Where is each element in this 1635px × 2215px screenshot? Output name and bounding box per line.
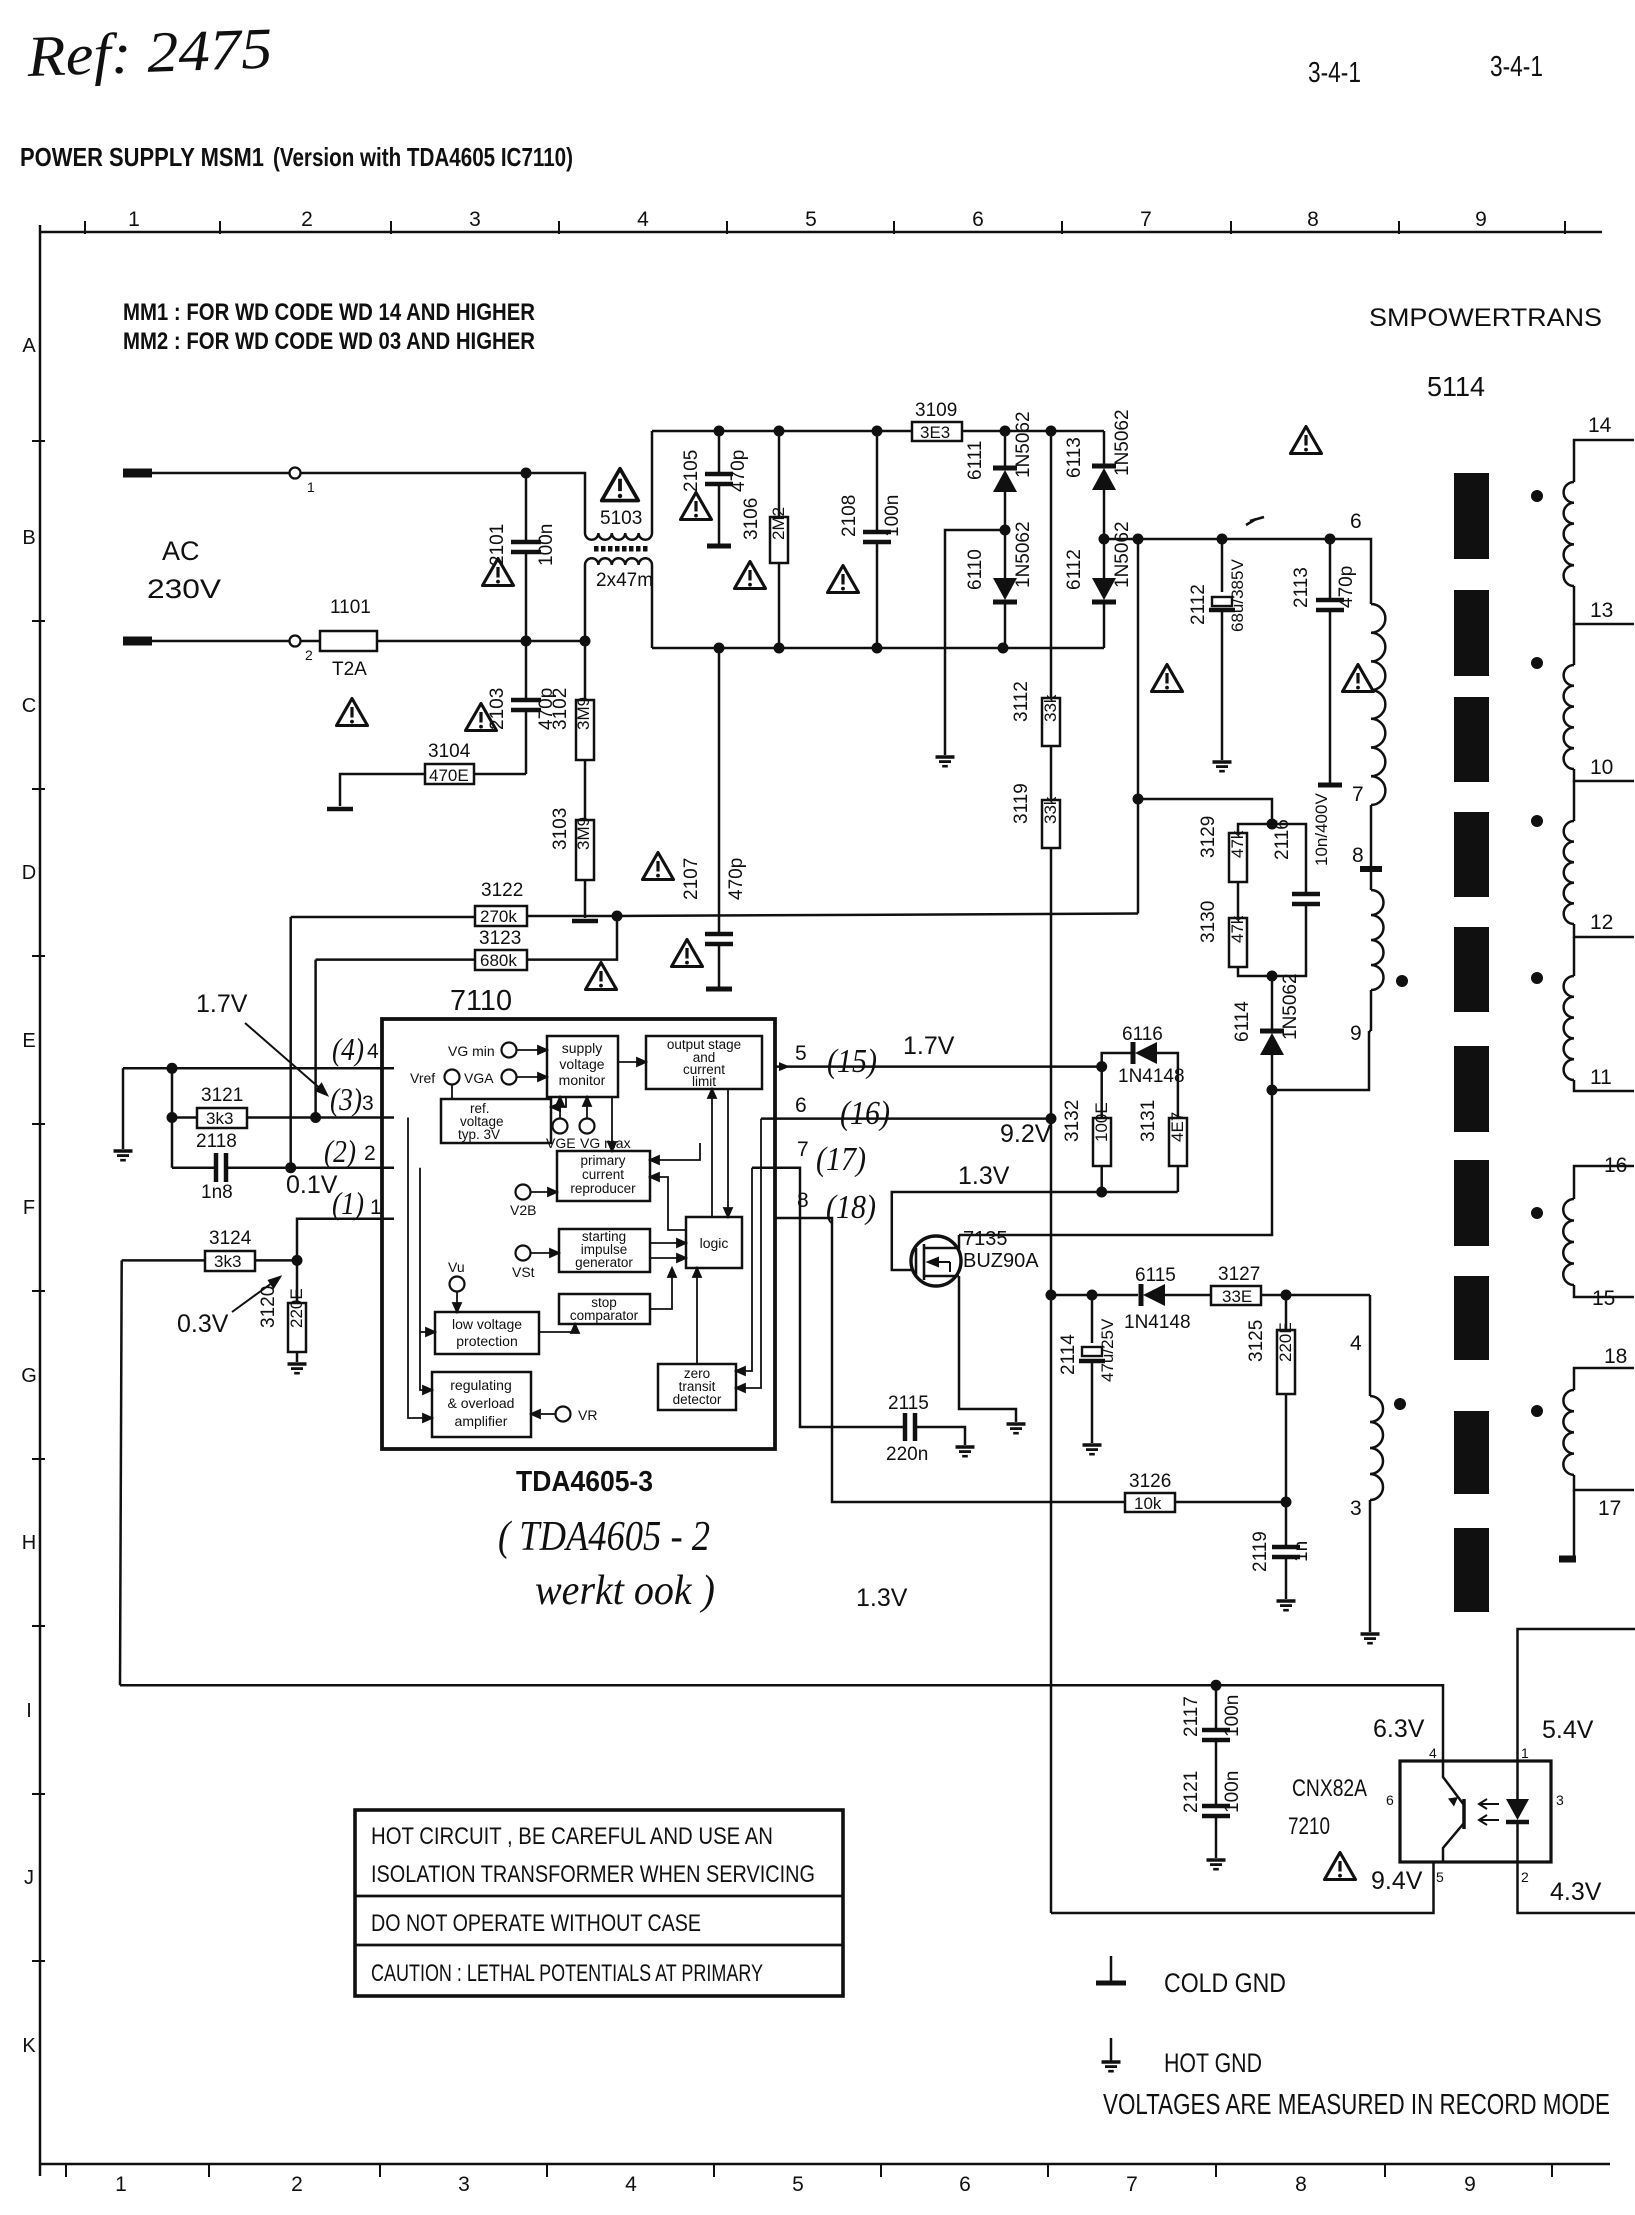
transformer 5114 core bars bbox=[1454, 473, 1489, 1612]
svg-text:9: 9 bbox=[1350, 1022, 1362, 1045]
svg-text:2114: 2114 bbox=[1058, 1334, 1079, 1375]
svg-text:2112: 2112 bbox=[1188, 584, 1209, 625]
IC internal connector monitor down to reproducer bbox=[611, 1097, 613, 1145]
svg-text:470E: 470E bbox=[429, 766, 469, 785]
svg-text:33k: 33k bbox=[1041, 694, 1060, 722]
svg-text:1.7V: 1.7V bbox=[196, 990, 248, 1018]
opto light arrows bbox=[1479, 1799, 1499, 1825]
svg-text:6.3V: 6.3V bbox=[1373, 1715, 1425, 1743]
resistor 3125 220E bbox=[1285, 1295, 1288, 1330]
svg-text:270k: 270k bbox=[480, 907, 517, 926]
svg-text:33E: 33E bbox=[1222, 1287, 1252, 1306]
svg-text:5: 5 bbox=[1436, 1869, 1444, 1885]
svg-text:9: 9 bbox=[1475, 208, 1487, 231]
node pin6 / VCC rail bbox=[1046, 1113, 1057, 1124]
svg-text:(17): (17) bbox=[816, 1141, 866, 1178]
legend hot ground symbol bbox=[1110, 2038, 1113, 2061]
IC internal connector output stage down to logic bbox=[727, 1089, 729, 1211]
node top bus 2108 bbox=[872, 426, 883, 437]
svg-text:3102: 3102 bbox=[550, 688, 571, 730]
svg-text:2103: 2103 bbox=[487, 688, 508, 730]
svg-text:1.3V: 1.3V bbox=[958, 1162, 1010, 1190]
test point Vu bbox=[450, 1277, 465, 1292]
resistor 3132 100E bbox=[1100, 1067, 1103, 1118]
polarity dot 12-11 bbox=[1531, 972, 1543, 984]
svg-text:1N4148: 1N4148 bbox=[1124, 1312, 1191, 1333]
transformer primary wire 7 to 8 bbox=[1370, 805, 1373, 890]
svg-text:1101: 1101 bbox=[330, 597, 371, 618]
svg-text:7: 7 bbox=[797, 1138, 809, 1161]
svg-text:VGE: VGE bbox=[546, 1135, 576, 1151]
svg-text:3131: 3131 bbox=[1138, 1100, 1159, 1142]
svg-text:C: C bbox=[22, 695, 36, 717]
resistor 3122 270k bbox=[291, 916, 475, 919]
wire gate feedback line bbox=[892, 1192, 1178, 1270]
svg-text:I: I bbox=[26, 1700, 32, 1722]
wire bottom bus bbox=[652, 647, 1104, 650]
warning triangle left of 2105 bbox=[681, 493, 712, 520]
resistor 3103 3M9 bbox=[576, 820, 594, 880]
node 3122/3123 join bbox=[612, 911, 623, 922]
svg-text:2: 2 bbox=[1521, 1869, 1529, 1885]
transformer secondary tap 13 bbox=[1574, 586, 1634, 624]
svg-text:5.4V: 5.4V bbox=[1542, 1716, 1594, 1744]
warning triangle below 3106 bbox=[735, 562, 766, 589]
block zero transit detector bbox=[658, 1364, 736, 1410]
border ruler left letters bbox=[21, 335, 37, 2057]
warning triangle below fuse bbox=[337, 699, 368, 726]
svg-text:14: 14 bbox=[1588, 414, 1612, 437]
svg-text:8: 8 bbox=[1307, 208, 1319, 231]
svg-text:13: 13 bbox=[1590, 599, 1613, 622]
resistor 3106 2M2 bbox=[778, 431, 781, 517]
svg-text:10: 10 bbox=[1590, 756, 1613, 779]
resistor 3119 33k bbox=[1050, 746, 1053, 800]
svg-text:3122: 3122 bbox=[481, 880, 523, 901]
svg-text:3k3: 3k3 bbox=[214, 1252, 241, 1271]
node +bus 2112 bbox=[1217, 534, 1228, 545]
wire 3122 drop to pin2 line bbox=[289, 917, 292, 1168]
svg-text:1N5062: 1N5062 bbox=[1112, 409, 1133, 476]
svg-text:2121: 2121 bbox=[1181, 1771, 1202, 1813]
node 3124/3120/pin1 bbox=[292, 1255, 303, 1266]
wire pin5 line (1.7V) bbox=[775, 1065, 1102, 1068]
transformer primary winding 4-3 bbox=[1369, 1295, 1372, 1396]
resistor 3130 47k bbox=[1229, 918, 1247, 967]
svg-text:7: 7 bbox=[1140, 208, 1152, 231]
svg-text:2107: 2107 bbox=[681, 858, 702, 900]
node top bus 2105 bbox=[714, 426, 725, 437]
block supply voltage monitor bbox=[547, 1036, 618, 1097]
legend cold ground symbol bbox=[1110, 1956, 1113, 1982]
IC internal connector low voltage protection to stop comparator bbox=[539, 1330, 575, 1332]
transformer secondary winding 13-10 bbox=[1573, 624, 1576, 665]
svg-text:2: 2 bbox=[364, 1142, 376, 1165]
resistor 3102 3M9 bbox=[576, 700, 594, 760]
svg-text:5: 5 bbox=[795, 1042, 807, 1065]
test point VG max bbox=[580, 1119, 595, 1134]
IC internal connector VGmin to monitor bbox=[408, 1046, 761, 1422]
svg-text:1n8: 1n8 bbox=[201, 1182, 233, 1203]
IC internal connector impulse generator to logic bbox=[650, 1242, 680, 1244]
wire opto pin1 to 5.4V line bbox=[1518, 1629, 1635, 1761]
svg-text:SMPOWERTRANS: SMPOWERTRANS bbox=[1369, 304, 1602, 332]
opto LED bbox=[1516, 1761, 1519, 1799]
svg-text:33k: 33k bbox=[1041, 796, 1060, 824]
svg-text:VSt: VSt bbox=[512, 1264, 535, 1280]
hot ground 2114 bbox=[1083, 1445, 1102, 1454]
diode 6113 1N5062 bbox=[1103, 431, 1106, 468]
resistor 3126 10k bbox=[1125, 1493, 1175, 1512]
hot ground pin4 bbox=[114, 1151, 133, 1160]
svg-text:typ. 3V: typ. 3V bbox=[458, 1127, 500, 1142]
svg-text:HOT GND: HOT GND bbox=[1164, 2048, 1262, 2078]
transformer secondary tap 11 bbox=[1574, 1080, 1634, 1091]
svg-text:4: 4 bbox=[1429, 1745, 1437, 1761]
svg-text:protection: protection bbox=[456, 1333, 517, 1349]
svg-text:4: 4 bbox=[637, 208, 649, 231]
svg-text:voltage: voltage bbox=[559, 1056, 604, 1072]
svg-text:6111: 6111 bbox=[965, 441, 986, 480]
arrow pin5 output bbox=[779, 1062, 790, 1071]
svg-text:Ref: 2475: Ref: 2475 bbox=[25, 15, 273, 89]
capacitor 2103 470p bbox=[525, 641, 528, 698]
transformer secondary winding 12-11 bbox=[1573, 937, 1576, 976]
IC internal connector logic to reproducer (lower) bbox=[656, 1177, 686, 1230]
svg-text:3: 3 bbox=[469, 208, 481, 231]
svg-text:MM2 : FOR WD CODE WD 03 AND HI: MM2 : FOR WD CODE WD 03 AND HIGHER bbox=[123, 328, 535, 355]
block output stage and current limit bbox=[646, 1036, 762, 1089]
wire filter left riser to AC line2 and 3102 bbox=[584, 565, 587, 700]
svg-text:3104: 3104 bbox=[428, 741, 471, 762]
svg-text:3M9: 3M9 bbox=[574, 697, 593, 730]
hot ground 2115 bbox=[956, 1447, 975, 1456]
svg-text:0.1V: 0.1V bbox=[286, 1171, 338, 1199]
svg-text:3109: 3109 bbox=[915, 400, 957, 421]
capacitor 2113 470p bbox=[1329, 539, 1332, 598]
node bottom bus 6110 bbox=[998, 643, 1009, 654]
test point VR bbox=[556, 1407, 571, 1422]
block primary current reproducer bbox=[557, 1151, 650, 1201]
svg-text:7: 7 bbox=[1126, 2173, 1138, 2196]
wire opto pin2 to 4.3V line bbox=[1518, 1862, 1635, 1913]
svg-text:5103: 5103 bbox=[600, 508, 642, 529]
node top bus 6111 bbox=[1000, 426, 1011, 437]
node 3121 left bbox=[167, 1112, 178, 1123]
node bottom bus 2107 bbox=[714, 643, 725, 654]
node VCC rail / 6115 bbox=[1046, 1290, 1057, 1301]
svg-text:Vref: Vref bbox=[410, 1070, 435, 1086]
svg-text:(Version with TDA4605 IC7110): (Version with TDA4605 IC7110) bbox=[273, 142, 573, 172]
svg-text:TDA4605-3: TDA4605-3 bbox=[516, 1466, 653, 1498]
node top bus 3106 bbox=[774, 426, 785, 437]
svg-text:6113: 6113 bbox=[1064, 437, 1085, 478]
svg-text:Vu: Vu bbox=[448, 1259, 465, 1275]
svg-text:VG max: VG max bbox=[580, 1135, 631, 1151]
capacitor 2118 1n8 bbox=[172, 1166, 214, 1169]
svg-text:HOT CIRCUIT , BE CAREFUL AND U: HOT CIRCUIT , BE CAREFUL AND USE AN bbox=[371, 1823, 773, 1850]
node AC2-2101 junction bbox=[521, 636, 532, 647]
op IC U7110 TDA4605 box bbox=[382, 1019, 775, 1449]
node 3121 right / 3123 drop bbox=[310, 1112, 321, 1123]
svg-text:17: 17 bbox=[1598, 1497, 1621, 1520]
wire primary pin 3 to ground bbox=[1369, 1500, 1372, 1632]
block starting impulse generator bbox=[559, 1229, 650, 1272]
svg-text:9.2V: 9.2V bbox=[1000, 1120, 1052, 1148]
hot ground 2112 bbox=[1213, 762, 1232, 771]
svg-text:1: 1 bbox=[370, 1196, 382, 1219]
transformer primary winding 6-7 bbox=[1371, 604, 1385, 805]
svg-text:7210: 7210 bbox=[1288, 1813, 1330, 1840]
svg-text:3M9: 3M9 bbox=[574, 817, 593, 850]
wire VCC rail down bbox=[1050, 848, 1053, 1913]
transformer secondary tap 18 bbox=[1574, 1368, 1634, 1390]
node 2118/3122 drop bbox=[285, 1162, 296, 1173]
svg-text:47u/25V: 47u/25V bbox=[1098, 1318, 1117, 1382]
IC internal connector V2B to reproducer bbox=[531, 1191, 551, 1193]
svg-text:3k3: 3k3 bbox=[206, 1109, 233, 1128]
polarity dot 16-15 bbox=[1531, 1207, 1543, 1219]
resistor 3127 33E bbox=[1211, 1286, 1261, 1305]
transformer secondary winding 14-13 bbox=[1564, 482, 1574, 586]
svg-text:230V: 230V bbox=[147, 574, 221, 604]
svg-text:3130: 3130 bbox=[1198, 901, 1219, 943]
IC internal connector stop comparator to logic bbox=[650, 1276, 672, 1309]
svg-text:3121: 3121 bbox=[201, 1085, 243, 1106]
svg-text:10n/400V: 10n/400V bbox=[1312, 793, 1331, 866]
warning triangle left of 2112 bbox=[1152, 665, 1183, 692]
transformer primary wire 9 bbox=[1370, 990, 1373, 1031]
svg-text:7110: 7110 bbox=[450, 985, 512, 1017]
wire AC line 2 bbox=[152, 640, 585, 643]
svg-text:2118: 2118 bbox=[196, 1131, 237, 1152]
svg-text:470p: 470p bbox=[726, 858, 747, 900]
svg-text:1: 1 bbox=[115, 2173, 127, 2196]
capacitor 2107 470p bbox=[718, 648, 721, 932]
IC internal connector pin6 rail to zero transit bbox=[744, 1119, 761, 1388]
diode 6112 1N5062 bbox=[1103, 539, 1106, 578]
svg-text:regulating: regulating bbox=[450, 1377, 512, 1393]
node bottom bus 2108 bbox=[872, 643, 883, 654]
svg-text:6: 6 bbox=[959, 2173, 971, 2196]
svg-text:2: 2 bbox=[301, 208, 313, 231]
svg-text:reproducer: reproducer bbox=[570, 1181, 636, 1196]
svg-text:8: 8 bbox=[1352, 844, 1364, 867]
transformer secondary winding 16-15 bbox=[1563, 1199, 1574, 1285]
svg-text:2x47m: 2x47m bbox=[596, 570, 653, 591]
wire MOSFET drain to 6114 node bbox=[959, 1090, 1272, 1235]
svg-text:T2A: T2A bbox=[332, 659, 367, 680]
svg-text:(1): (1) bbox=[332, 1185, 364, 1221]
wire 3129 feed line bbox=[1138, 799, 1272, 824]
svg-text:7: 7 bbox=[1352, 783, 1364, 806]
capacitor 2115 220n bbox=[903, 1413, 908, 1441]
svg-text:5: 5 bbox=[792, 2173, 804, 2196]
svg-text:470p: 470p bbox=[728, 450, 749, 492]
warning triangle above 5103 (large) bbox=[602, 469, 639, 501]
resistor 3131 4E7 bbox=[1169, 1118, 1187, 1166]
warning triangle near 2103 bbox=[466, 704, 497, 731]
svg-text:(4): (4) bbox=[332, 1031, 364, 1067]
svg-text:& overload: & overload bbox=[448, 1395, 515, 1411]
svg-text:A: A bbox=[22, 335, 36, 357]
border ruler bottom line bbox=[40, 2163, 1610, 2166]
wire MOSFET source to ground bbox=[959, 1276, 1016, 1422]
svg-text:H: H bbox=[22, 1532, 36, 1554]
node 3126/3125/2119 bbox=[1281, 1497, 1292, 1508]
test point Vref bbox=[445, 1070, 460, 1085]
wire filter right riser top (to top bus) bbox=[651, 431, 654, 533]
IC internal connector VSt to impulse generator bbox=[531, 1252, 553, 1254]
svg-text:1N5062: 1N5062 bbox=[1013, 411, 1034, 478]
transformer secondary tap 17 bbox=[1574, 1475, 1634, 1490]
optocoupler U7210 CNX82A box bbox=[1400, 1761, 1551, 1862]
diode 6111 1N5062 bbox=[1004, 431, 1007, 470]
hot ground bridge bbox=[936, 757, 955, 766]
resistor 3109 3E3 bbox=[912, 422, 962, 441]
scribble mark above +bus bbox=[1246, 517, 1264, 525]
svg-text:6: 6 bbox=[972, 208, 984, 231]
capacitor 2119 1n bbox=[1285, 1502, 1288, 1545]
test point VGA bbox=[502, 1070, 517, 1085]
capacitor 2114 47u/25V electrolytic bbox=[1091, 1295, 1094, 1343]
capacitor 2108 100n bbox=[876, 431, 879, 530]
svg-text:G: G bbox=[21, 1365, 37, 1387]
test point VG min bbox=[502, 1043, 517, 1058]
svg-text:J: J bbox=[24, 1867, 34, 1889]
block logic bbox=[686, 1217, 742, 1268]
svg-text:3124: 3124 bbox=[209, 1228, 252, 1249]
svg-text:2105: 2105 bbox=[681, 450, 702, 492]
svg-text:VR: VR bbox=[578, 1407, 597, 1423]
transformer primary winding 8-9 bbox=[1371, 890, 1384, 990]
hot ground 3120 bbox=[288, 1364, 307, 1373]
svg-text:V2B: V2B bbox=[510, 1202, 536, 1218]
svg-text:3112: 3112 bbox=[1011, 681, 1032, 722]
svg-text:5114: 5114 bbox=[1427, 371, 1485, 402]
svg-text:primary: primary bbox=[580, 1153, 625, 1168]
opto pin numbers bbox=[1386, 1745, 1564, 1885]
svg-text:3127: 3127 bbox=[1218, 1264, 1260, 1285]
svg-text:4.3V: 4.3V bbox=[1550, 1878, 1602, 1906]
IC internal connector VGE up bbox=[559, 1101, 561, 1118]
wire opto feed line (pin1 of IC to opto pin 4) bbox=[120, 1685, 1443, 1761]
svg-text:16: 16 bbox=[1604, 1154, 1627, 1177]
svg-text:10k: 10k bbox=[1134, 1494, 1162, 1513]
node 2117 chain bbox=[1211, 1680, 1222, 1691]
IC internal connector monitor to ref box bbox=[559, 1097, 566, 1107]
hot ground 2119 bbox=[1277, 1601, 1296, 1610]
wire AC line 1 bbox=[152, 473, 585, 533]
node 3130 bottom bbox=[1267, 971, 1278, 982]
node gate line / 3132 bbox=[1096, 1187, 1107, 1198]
arrow from 1.7V to pin3 bbox=[245, 1023, 327, 1095]
svg-text:3: 3 bbox=[1350, 1497, 1362, 1520]
transformer secondary winding 10-12 bbox=[1573, 781, 1576, 821]
svg-text:1N5062: 1N5062 bbox=[1280, 973, 1301, 1040]
svg-text:3103: 3103 bbox=[550, 808, 571, 850]
block regulating overload amplifier bbox=[432, 1372, 531, 1437]
polarity dot 14-13 bbox=[1531, 490, 1543, 502]
transistor Q7135 BUZ90A MOSFET bbox=[911, 1236, 961, 1286]
svg-text:47k: 47k bbox=[1228, 915, 1247, 943]
svg-text:3: 3 bbox=[458, 2173, 470, 2196]
wire +bus to transformer pin 6 bbox=[1104, 539, 1371, 604]
node 3129 top bbox=[1267, 819, 1278, 830]
svg-text:monitor: monitor bbox=[559, 1072, 606, 1088]
svg-text:8: 8 bbox=[797, 1189, 809, 1212]
svg-text:3119: 3119 bbox=[1011, 783, 1032, 824]
svg-text:3106: 3106 bbox=[741, 498, 762, 540]
svg-text:6110: 6110 bbox=[965, 549, 986, 590]
opto transistor bbox=[1443, 1761, 1464, 1805]
polarity dot 13-10 bbox=[1531, 657, 1543, 669]
wire pin1 line bbox=[297, 1219, 394, 1261]
warning triangle top right bbox=[1291, 427, 1322, 454]
wire 1138 drop to 3129 node bbox=[1137, 539, 1140, 914]
svg-text:2117: 2117 bbox=[1181, 1696, 1202, 1737]
svg-text:( TDA4605 - 2: ( TDA4605 - 2 bbox=[498, 1514, 710, 1560]
IC internal connector logic up to output stage bbox=[711, 1095, 713, 1217]
svg-text:VG min: VG min bbox=[448, 1043, 495, 1059]
svg-text:CAUTION : LETHAL POTENTIALS AT: CAUTION : LETHAL POTENTIALS AT PRIMARY bbox=[371, 1960, 763, 1987]
svg-text:POWER SUPPLY MSM1: POWER SUPPLY MSM1 bbox=[20, 142, 264, 172]
left rail 172 bbox=[171, 1068, 174, 1167]
svg-text:3129: 3129 bbox=[1198, 816, 1219, 858]
svg-text:5: 5 bbox=[805, 208, 817, 231]
svg-text:CNX82A: CNX82A bbox=[1292, 1775, 1367, 1802]
svg-text:F: F bbox=[23, 1197, 35, 1219]
svg-text:3126: 3126 bbox=[1129, 1471, 1171, 1492]
svg-text:3-4-1: 3-4-1 bbox=[1308, 57, 1361, 89]
svg-text:68u/385V: 68u/385V bbox=[1228, 559, 1247, 632]
svg-text:11: 11 bbox=[1590, 1066, 1612, 1089]
svg-text:E: E bbox=[22, 1030, 35, 1052]
line filter 5103 top coil bbox=[585, 533, 652, 540]
switch contact 1 bbox=[290, 468, 301, 479]
wire pin4 ground stub bbox=[122, 1068, 125, 1149]
svg-text:3: 3 bbox=[1556, 1792, 1564, 1808]
svg-text:2: 2 bbox=[305, 647, 313, 663]
IC internal connector pin rails to amplifiers bbox=[408, 1118, 426, 1419]
polarity dot 18-17 bbox=[1531, 1405, 1543, 1417]
node 2114 bbox=[1087, 1290, 1098, 1301]
svg-text:6114: 6114 bbox=[1232, 1001, 1253, 1042]
tap 8 tick bbox=[1360, 866, 1382, 872]
warning triangle below 3103 bbox=[586, 963, 617, 990]
svg-text:18: 18 bbox=[1604, 1345, 1627, 1368]
capacitor 2121 100n bbox=[1202, 1804, 1230, 1809]
capacitor 2112 68u/385V electrolytic bbox=[1221, 539, 1224, 592]
IC internal connector logic to reproducer (upper) bbox=[656, 1143, 700, 1160]
cold ground below 3104 bbox=[327, 808, 353, 810]
svg-text:detector: detector bbox=[673, 1392, 722, 1407]
svg-text:BUZ90A: BUZ90A bbox=[963, 1250, 1039, 1272]
line filter 5103 bottom coil 2x47m bbox=[585, 558, 652, 565]
block stop comparator bbox=[559, 1294, 650, 1324]
diode 6115 1N4148 bbox=[1139, 1284, 1144, 1306]
node 6111-6110 midpoint bbox=[1000, 525, 1011, 536]
node +bus 1138 bbox=[1133, 534, 1144, 545]
node bottom bus 3106 bbox=[774, 643, 785, 654]
svg-text:4E7: 4E7 bbox=[1168, 1112, 1187, 1142]
svg-text:(18): (18) bbox=[826, 1189, 876, 1226]
svg-text:8: 8 bbox=[1295, 2173, 1307, 2196]
svg-text:2119: 2119 bbox=[1250, 1531, 1271, 1572]
IC internal connector zero transit to logic bbox=[696, 1276, 698, 1364]
svg-text:1.7V: 1.7V bbox=[903, 1032, 955, 1060]
node +bus 2113 bbox=[1325, 534, 1336, 545]
